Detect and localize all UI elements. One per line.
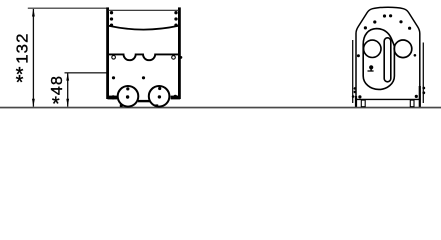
- housing bottom bar: [355, 98, 421, 100]
- nub tick: [368, 70, 374, 72]
- bolt dots right post: [174, 11, 177, 14]
- right boss circle: [394, 40, 412, 58]
- left boss circle: [364, 40, 381, 57]
- mid dot center: [142, 76, 145, 79]
- wavy platform line: [109, 54, 179, 60]
- ground line: [0, 107, 441, 109]
- housing right edge lower: [419, 86, 421, 107]
- rear plate dots left lower: [354, 87, 357, 90]
- dim 132 line: [32, 9, 34, 107]
- svg-text:*: *: [16, 72, 24, 94]
- nub dot: [369, 65, 373, 69]
- svg-text:132: 132: [14, 33, 32, 64]
- small circle left below wavy: [112, 56, 116, 60]
- base foot right: [410, 100, 414, 107]
- flange dot left mid: [357, 54, 360, 57]
- slot window: [384, 38, 391, 82]
- axle stub right: [171, 96, 181, 100]
- wheel left hub dot: [126, 95, 129, 98]
- low link bar between wheels: [138, 100, 151, 102]
- mid dot near left post: [112, 76, 115, 79]
- housing left edge lower: [355, 96, 357, 107]
- dim 48 arrow bottom: [66, 99, 69, 107]
- wheel left top dot: [126, 87, 129, 90]
- svg-text:*: *: [52, 93, 60, 115]
- outside dot left edge: [352, 95, 355, 98]
- cart left post: [106, 7, 109, 99]
- bottom corner dot left: [358, 95, 361, 98]
- label *48: [48, 75, 66, 115]
- dim 48 extension line: [65, 72, 108, 74]
- bottom corner dot right: [415, 95, 418, 98]
- outside dots right edge: [422, 87, 425, 90]
- dome bolt dots: [364, 26, 367, 29]
- wheel chock right: [155, 104, 158, 107]
- nub stem: [370, 67, 372, 71]
- wheel left: [118, 86, 139, 107]
- bolt dots left post: [110, 11, 113, 14]
- rear plate edge left: [352, 40, 354, 103]
- cart right post: [178, 7, 181, 99]
- label **132: [14, 33, 32, 95]
- cart top beam: [108, 9, 179, 11]
- housing outline: [356, 7, 420, 100]
- wheel chock left: [120, 104, 123, 107]
- svg-text:48: 48: [48, 75, 66, 95]
- wheel right top dot: [158, 87, 161, 90]
- wheel right hub dot: [158, 95, 161, 98]
- dim 48 line: [67, 73, 69, 107]
- dim 132 extension line top: [28, 7, 107, 9]
- big stadium body: [363, 29, 394, 90]
- rear plate edge right: [422, 43, 424, 104]
- small dot outside right post: [180, 56, 183, 59]
- flange dot right mid: [414, 54, 417, 57]
- dim 48 arrow top: [66, 73, 69, 81]
- cart curved brace: [109, 26, 179, 30]
- axle end dot right: [173, 95, 177, 99]
- wheel right: [149, 86, 170, 107]
- small circle right below wavy: [172, 56, 176, 60]
- dim 132 arrow top: [32, 8, 35, 16]
- base foot left: [361, 100, 365, 107]
- dim 132 arrow bottom: [32, 99, 35, 107]
- axle stub left: [108, 96, 118, 100]
- axle end dot left: [111, 95, 115, 99]
